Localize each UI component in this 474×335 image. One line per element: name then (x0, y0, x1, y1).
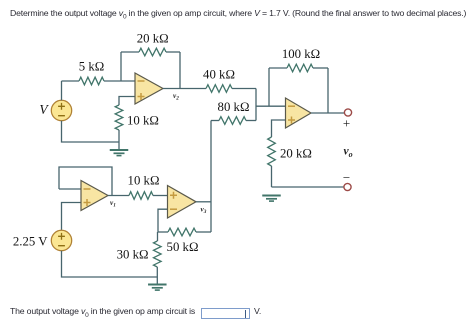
svg-text:20 kΩ: 20 kΩ (280, 147, 312, 161)
op-amp U3 (168, 186, 197, 219)
terminal plus (344, 109, 351, 116)
op-amp U4 (286, 98, 312, 128)
wire 100k top right (313, 67, 328, 69)
wire op3 output (196, 201, 211, 203)
wire op1 output (163, 88, 206, 90)
resistor 20k load (268, 137, 276, 166)
wire input to 5k (62, 80, 80, 82)
terminal minus (344, 183, 351, 190)
wire op4 inverting input (256, 105, 286, 107)
svg-text:v1: v1 (110, 199, 116, 209)
wire 80k right lead (246, 120, 256, 122)
wire op4 noninverting input (272, 120, 286, 137)
answer line text (10, 306, 261, 319)
wire 5k to op-amp inverting input (104, 80, 135, 82)
svg-text:5 kΩ: 5 kΩ (79, 60, 105, 74)
problem statement text (10, 8, 474, 21)
wire follower feedback top (59, 167, 112, 196)
resistor 100k (287, 64, 313, 72)
svg-text:V: V (39, 102, 49, 117)
wire 100k right vertical (327, 68, 329, 113)
ground G1 (110, 150, 129, 156)
wire v3 vertical to 80k and 50k (210, 121, 212, 233)
svg-text:v2: v2 (173, 92, 179, 102)
resistor 40k (206, 85, 232, 93)
wire to negative terminal (272, 186, 345, 188)
wire op2 inverting input (59, 188, 81, 190)
wire op3 inverting input (158, 209, 168, 232)
op-amp U2 (81, 181, 108, 211)
wire feedback right vertical (179, 52, 181, 89)
wire 40k to summing node (232, 88, 256, 90)
wire V-source top lead (61, 81, 63, 100)
resistor 10k mid (129, 192, 153, 200)
svg-text:v3: v3 (201, 205, 207, 215)
wire 10k to op3 (153, 195, 168, 197)
svg-text:10 kΩ: 10 kΩ (128, 174, 160, 188)
wire 50k left lead (158, 231, 168, 233)
wire feedback top right (166, 51, 180, 53)
wire 30k top lead (157, 232, 159, 241)
wire V-source bottom to ground node (62, 121, 120, 142)
wire 2.25V bottom rail (62, 251, 158, 277)
wire feedback top left (121, 51, 139, 53)
resistor 30k (154, 241, 162, 267)
svg-text:80 kΩ: 80 kΩ (218, 100, 250, 114)
resistor 80k (219, 117, 246, 125)
wire feedback left vertical (120, 52, 122, 81)
svg-text:100 kΩ: 100 kΩ (282, 47, 320, 61)
resistor 20k feedback (139, 48, 166, 56)
svg-text:2.25 V: 2.25 V (13, 235, 48, 249)
svg-text:+: + (343, 116, 350, 131)
wire op1 noninverting input (119, 97, 135, 106)
resistor 5k (79, 77, 104, 85)
voltage source V (51, 100, 71, 120)
svg-text:50 kΩ: 50 kΩ (167, 240, 199, 254)
wire op2 output (108, 195, 129, 197)
wire 50k right lead (196, 231, 211, 233)
svg-text:vo: vo (344, 146, 353, 159)
wire 100k feedback left vertical (268, 68, 270, 106)
wire 30k bottom to ground (156, 267, 158, 285)
wire 100k top left (269, 67, 287, 69)
wire 80k left lead from v3 branch (211, 120, 219, 122)
ground G2 (148, 285, 167, 291)
wire 20k bottom (271, 166, 273, 187)
wire op2 noninverting input (62, 203, 82, 231)
svg-text:30 kΩ: 30 kΩ (117, 248, 149, 262)
op-amp U1 (135, 73, 163, 104)
svg-text:20 kΩ: 20 kΩ (137, 32, 169, 46)
svg-text:10 kΩ: 10 kΩ (127, 114, 159, 128)
ground G3 (262, 196, 281, 202)
resistor 50k (168, 228, 196, 236)
wire op4 output (311, 112, 344, 114)
resistor 10k to ground (115, 105, 123, 130)
wire summing node vertical (255, 89, 257, 121)
wire 10k to ground (118, 130, 120, 150)
svg-text:−: − (343, 170, 350, 185)
svg-text:40 kΩ: 40 kΩ (203, 68, 235, 82)
voltage source 2.25V (51, 230, 71, 250)
